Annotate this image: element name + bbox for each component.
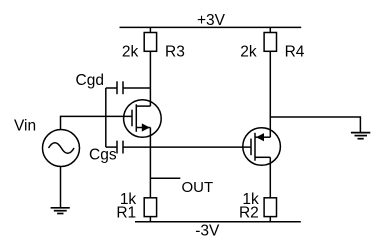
- svg-text:2k: 2k: [122, 43, 139, 60]
- svg-text:R4: R4: [285, 43, 305, 60]
- wire gate branch (to Cgd/Cgs): [105, 88, 107, 147]
- capacitor Cgs: [106, 141, 251, 154]
- svg-text:R1: R1: [116, 205, 136, 222]
- resistor R4: [264, 27, 276, 51]
- resistor R1: [144, 198, 156, 222]
- wire R4 to M2 source: [269, 51, 271, 137]
- svg-text:Vin: Vin: [14, 117, 36, 134]
- capacitor Cgd: [106, 81, 151, 94]
- wire to ground (right): [270, 117, 360, 132]
- svg-text:Cgs: Cgs: [89, 147, 117, 164]
- svg-text:-3V: -3V: [195, 223, 220, 240]
- wire R3 to M1 drain: [149, 51, 151, 106]
- transistor M1: [124, 100, 162, 138]
- svg-text:R3: R3: [165, 43, 185, 60]
- +3V rail: [120, 26, 302, 28]
- ground (right): [351, 133, 370, 139]
- svg-text:Cgd: Cgd: [76, 72, 104, 89]
- ground (Vin): [51, 208, 70, 214]
- -3V rail: [135, 221, 301, 223]
- resistor R2: [264, 198, 276, 222]
- svg-text:R2: R2: [239, 205, 259, 222]
- wire OUT stub: [150, 177, 180, 179]
- wire Vin to gate M1: [61, 116, 133, 129]
- svg-text:+3V: +3V: [197, 12, 226, 29]
- transistor M2: [243, 128, 281, 166]
- wire M2 drain to R2: [269, 157, 271, 197]
- svg-text:2k: 2k: [240, 43, 257, 60]
- svg-text:OUT: OUT: [182, 179, 214, 196]
- wire Vin to ground: [60, 167, 62, 208]
- source Vin: [43, 130, 80, 167]
- wire source M1 to R1: [149, 128, 151, 198]
- resistor R3: [144, 27, 156, 51]
